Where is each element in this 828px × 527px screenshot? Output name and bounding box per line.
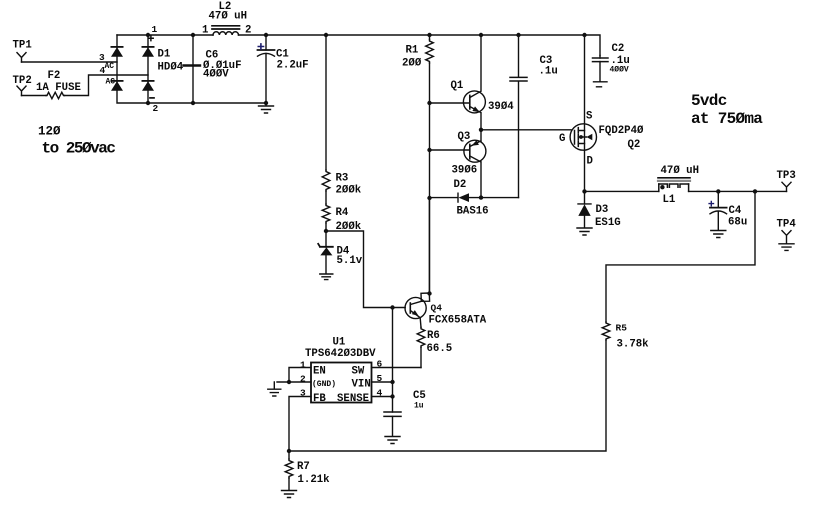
svg-text:BAS16: BAS16 [457,206,489,218]
svg-text:SW: SW [352,366,365,378]
svg-text:3.78k: 3.78k [617,339,650,351]
svg-text:D3: D3 [596,204,609,216]
svg-text:TP2: TP2 [13,75,32,87]
svg-text:66.5: 66.5 [427,343,453,355]
svg-text:TPS642Ø3DBV: TPS642Ø3DBV [305,348,376,360]
svg-text:FQD2P4Ø: FQD2P4Ø [599,125,644,137]
svg-text:1: 1 [300,360,306,371]
svg-text:5.1v: 5.1v [337,255,363,267]
svg-text:VIN: VIN [352,379,371,391]
svg-text:1u: 1u [414,402,424,411]
svg-text:1: 1 [152,24,158,35]
svg-text:Q3: Q3 [458,131,471,143]
svg-text:6: 6 [377,359,383,370]
svg-text:R7: R7 [297,461,310,473]
svg-text:Q1: Q1 [451,80,464,92]
svg-text:2: 2 [300,374,306,385]
svg-text:5: 5 [377,373,383,384]
svg-text:AC: AC [106,78,116,87]
svg-text:C5: C5 [413,390,426,402]
svg-text:FCX658ATA: FCX658ATA [429,315,487,327]
svg-text:EN: EN [313,366,326,378]
svg-text:TP1: TP1 [13,40,32,52]
svg-text:Q2: Q2 [628,139,641,151]
svg-text:at 75Øma: at 75Øma [691,110,763,128]
svg-text:R4: R4 [336,207,349,219]
svg-text:4: 4 [377,388,383,399]
svg-text:to 25Øvac: to 25Øvac [42,140,116,158]
svg-text:C2: C2 [612,43,625,55]
svg-text:R6: R6 [427,330,440,342]
svg-text:R1: R1 [406,45,419,57]
svg-text:47Ø uH: 47Ø uH [661,165,699,177]
svg-text:ES1G: ES1G [595,217,621,229]
svg-text:G: G [559,133,565,145]
svg-text:4ØØV: 4ØØV [610,66,629,75]
svg-text:1: 1 [202,25,208,37]
svg-text:39Ø4: 39Ø4 [488,101,514,113]
svg-text:R3: R3 [336,173,349,185]
svg-text:S: S [586,111,593,123]
svg-text:U1: U1 [333,337,346,349]
svg-text:3: 3 [300,388,306,399]
svg-text:2: 2 [153,103,159,114]
svg-text:C4: C4 [729,205,742,217]
svg-text:1.21k: 1.21k [298,474,331,486]
svg-text:FB: FB [313,393,326,405]
svg-text:2ØØ: 2ØØ [402,58,422,70]
svg-text:5vdc: 5vdc [691,92,727,110]
svg-text:(GND): (GND) [312,380,336,389]
svg-text:L1: L1 [663,194,676,206]
svg-text:68u: 68u [728,217,747,229]
svg-text:39Ø6: 39Ø6 [452,165,478,177]
svg-text:HDØ4: HDØ4 [158,62,184,74]
svg-text:2ØØk: 2ØØk [336,185,362,197]
svg-text:Q4: Q4 [431,303,443,314]
svg-text:D2: D2 [454,179,467,191]
svg-text:4ØØV: 4ØØV [203,68,229,80]
svg-text:12Ø: 12Ø [38,125,61,139]
svg-text:AC: AC [105,62,115,71]
svg-text:F2: F2 [48,70,61,82]
svg-text:D1: D1 [158,49,171,61]
svg-text:2.2uF: 2.2uF [277,60,309,72]
svg-text:1A FUSE: 1A FUSE [36,82,81,94]
svg-text:4: 4 [100,65,106,76]
svg-text:TP4: TP4 [777,219,797,231]
svg-text:2ØØk: 2ØØk [336,221,362,233]
svg-text:2: 2 [245,25,251,37]
svg-text:TP3: TP3 [777,170,796,182]
svg-text:D: D [587,156,593,168]
svg-text:47Ø uH: 47Ø uH [209,11,247,23]
svg-text:R5: R5 [616,323,628,334]
svg-text:.1u: .1u [539,66,558,78]
svg-text:SENSE: SENSE [337,393,369,405]
